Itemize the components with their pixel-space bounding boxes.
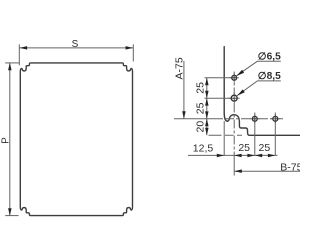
hole bottom row left [250,114,259,123]
dimension P arrow bottom [8,208,12,215]
dimension P extension line bottom [5,215,18,217]
leader diameter 8,5 [236,81,280,96]
dimension P arrow top [8,63,12,70]
arrow 12.5 right-pointing at plate edge [217,154,224,158]
hole bottom row right [271,114,280,123]
dimension P extension line top [5,62,19,64]
dimension A-75 arrow [182,111,186,118]
arrow right-pointing at col2 [247,154,254,158]
svg-text:P: P [1,137,12,144]
bottom dimension row line [188,154,278,156]
hole 6.5 top [230,73,239,82]
chain dimension line 25/25/20 [206,78,208,135]
dimension S arrow right [126,46,133,50]
bottom row centerline [174,118,223,120]
svg-text:20: 20 [195,121,207,133]
detail view: plate edge and corner profile with screw slot [224,46,300,135]
leader diameter 6,5 [236,61,281,76]
vertical centerline col1 [233,72,235,153]
dimension S arrow left [20,46,27,50]
hole row1 extension line [205,77,237,79]
dimension B-75 line [234,170,300,172]
chain arrow up at row1 [205,78,209,85]
svg-text:A-75: A-75 [174,57,186,79]
svg-text:S: S [72,39,79,50]
mounting plate outline (main view) with notched corners [20,63,132,216]
chain arrows at row2 [205,91,209,98]
svg-text:25: 25 [195,82,207,94]
svg-text:B-75: B-75 [280,162,300,174]
chain arrow down at bottom edge [205,128,209,135]
svg-text:25: 25 [259,142,271,154]
hole row2 extension line [205,97,238,99]
dimension S line [20,47,133,49]
dimension S extension line right [132,44,134,61]
plate edge extension to dim row [223,121,225,155]
svg-text:25: 25 [195,102,207,114]
leader arrow 6,5 [236,70,244,76]
arrow right-pointing at col3 [268,154,275,158]
svg-text:∅6,5: ∅6,5 [258,51,281,62]
hole 8.5 [229,93,240,104]
leader arrow 8,5 [237,89,245,95]
dimension S extension line left [18,44,20,65]
chain arrows at row3 [205,111,209,118]
arrow left-pointing at col2 [255,154,262,158]
dimension A-75 line [183,61,185,119]
svg-text:25: 25 [238,142,250,154]
col2 extension line [254,113,256,156]
arrow left-pointing at col1 [234,154,241,158]
svg-text:∅8,5: ∅8,5 [258,71,281,82]
bottom edge extension line (dashed) [209,134,243,136]
svg-text:12,5: 12,5 [193,143,214,155]
dimension P line [9,63,11,215]
col3 extension line [274,113,276,156]
dimension B-75 arrow [234,169,241,173]
